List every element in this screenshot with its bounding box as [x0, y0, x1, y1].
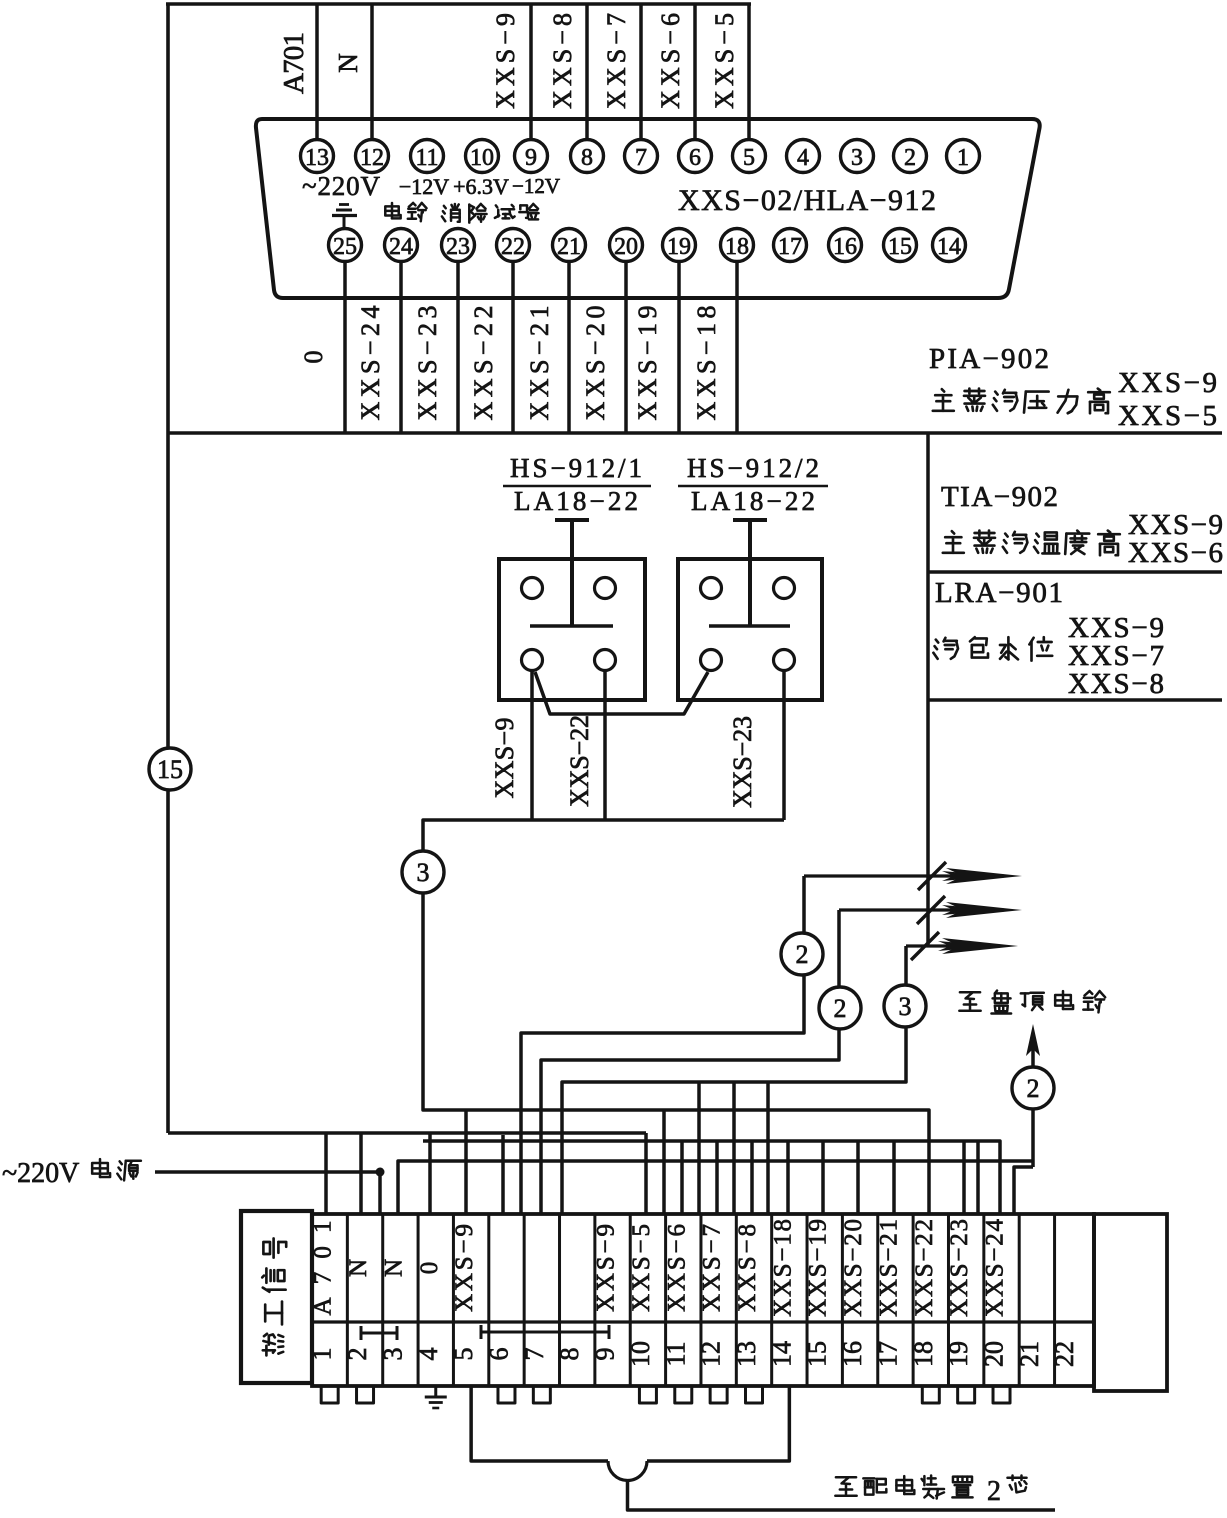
- svg-text:1: 1: [308, 1348, 337, 1361]
- wire N bus terminal 3 to bell cable: [398, 1161, 1033, 1214]
- svg-text:XXS−9: XXS−9: [593, 1224, 620, 1312]
- slash cable 3: [911, 932, 939, 960]
- slash cable 2: [917, 896, 945, 924]
- svg-text:2: 2: [1027, 1074, 1040, 1103]
- wire drop to terminal 11: [680, 1141, 684, 1214]
- wire XXS-6 to pin 6: [693, 4, 697, 140]
- svg-text:XXS−8: XXS−8: [1068, 668, 1164, 700]
- label drum water level: [933, 638, 958, 659]
- terminal 18 lug: [922, 1386, 939, 1403]
- svg-text:22: 22: [501, 234, 525, 260]
- svg-text:XXS−21: XXS−21: [875, 1219, 902, 1317]
- svg-text:15: 15: [888, 234, 912, 260]
- slash cable 1: [918, 862, 946, 890]
- svg-text:XXS−23: XXS−23: [946, 1219, 973, 1317]
- jumper terminals 5-9: [480, 1325, 483, 1339]
- terminal 11 lug: [675, 1386, 692, 1403]
- pin 6: [679, 140, 712, 173]
- wire from pin 18: [735, 262, 739, 433]
- svg-text:PIA−902: PIA−902: [929, 343, 1049, 375]
- wire drop to terminal 4: [428, 1133, 432, 1214]
- svg-text:XXS−20: XXS−20: [840, 1219, 867, 1317]
- wire drop to terminal 12: [715, 1141, 719, 1214]
- pin 13: [301, 140, 334, 173]
- switch HS-912/1 body: [499, 559, 645, 700]
- pin 19: [663, 229, 696, 262]
- svg-text:0: 0: [416, 1262, 443, 1275]
- wire gather line / annunciator table top: [168, 431, 1222, 435]
- svg-text:25: 25: [333, 234, 357, 260]
- svg-text:XXS−9: XXS−9: [451, 1224, 478, 1312]
- svg-text:N: N: [333, 53, 363, 73]
- wire drop to terminal 1: [324, 1133, 328, 1214]
- wire drop to terminal 14: [786, 1141, 790, 1214]
- svg-text:14: 14: [767, 1341, 796, 1367]
- pin 11: [411, 140, 444, 173]
- svg-text:6: 6: [689, 145, 701, 171]
- ground (pin 25): [339, 203, 349, 206]
- wire 220V source: [155, 1170, 380, 1174]
- wire table divider 2: [928, 570, 1222, 573]
- svg-text:18: 18: [725, 234, 749, 260]
- terminal strip header (thermal signals): [241, 1211, 312, 1383]
- wire XXS-23 from HS-912/2: [782, 671, 786, 820]
- wire table divider 3: [928, 698, 1222, 701]
- label main steam temperature high: [943, 531, 964, 553]
- svg-text:10: 10: [470, 145, 494, 171]
- switch HS-912/1 actuator: [555, 518, 589, 522]
- svg-text:3: 3: [417, 858, 430, 887]
- wire drop to terminal 13: [750, 1141, 754, 1214]
- terminal strip body: [312, 1214, 1094, 1386]
- wire drop to terminal 6: [501, 1135, 505, 1214]
- svg-text:7: 7: [520, 1348, 549, 1361]
- svg-text:20: 20: [980, 1341, 1009, 1367]
- svg-text:XXS−22: XXS−22: [911, 1219, 938, 1317]
- wire A701 to pin 13: [315, 4, 319, 140]
- svg-text:16: 16: [838, 1341, 867, 1367]
- terminal 1 lug: [321, 1386, 338, 1403]
- svg-text:XXS−18: XXS−18: [769, 1219, 796, 1317]
- svg-text:TIA−902: TIA−902: [941, 481, 1058, 513]
- wire switch cable bus: [423, 820, 784, 1108]
- pin 22: [497, 229, 530, 262]
- switch HS-912/2 contact top-right: [774, 578, 795, 599]
- svg-text:9: 9: [525, 145, 537, 171]
- svg-text:16: 16: [833, 234, 857, 260]
- pin 21: [553, 229, 586, 262]
- pin 12: [356, 140, 389, 173]
- svg-text:LRA−901: LRA−901: [935, 577, 1063, 609]
- wire from pin 21: [567, 262, 571, 433]
- pin 7: [625, 140, 658, 173]
- pin 23: [442, 229, 475, 262]
- svg-text:23: 23: [446, 234, 470, 260]
- wire from pin 20: [624, 262, 628, 433]
- svg-text:18: 18: [909, 1341, 938, 1367]
- svg-text:2: 2: [904, 145, 916, 171]
- pin 5: [733, 140, 766, 173]
- pin 4: [787, 140, 820, 173]
- pin 1: [947, 140, 980, 173]
- wire/arrow cable to TIA-902: [839, 908, 1004, 911]
- wire left cable bundle (15-core): [166, 4, 170, 1133]
- cable marker 2 (bell): [1012, 1067, 1054, 1109]
- svg-text:19: 19: [667, 234, 691, 260]
- svg-text:8: 8: [555, 1348, 584, 1361]
- wire from pin 25: [343, 262, 347, 433]
- switch HS-912/2 contact bottom-right: [774, 650, 795, 671]
- svg-text:−12V: −12V: [512, 174, 560, 198]
- switch HS-912/1 contact top-left: [522, 578, 543, 599]
- wire drop to terminal 16: [856, 1141, 860, 1214]
- switch HS-912/1 contact bottom-left: [522, 650, 543, 671]
- pin 17: [774, 229, 807, 262]
- svg-text:XXS−9: XXS−9: [1118, 367, 1217, 399]
- svg-text:13: 13: [732, 1341, 761, 1367]
- cable marker 3 (LRA): [884, 985, 926, 1027]
- svg-text:2: 2: [796, 940, 809, 969]
- wire from pin 24: [399, 262, 403, 433]
- wire drop to terminal 11 (cable): [662, 1110, 666, 1214]
- wire 15-core fan-out bus: [168, 1131, 646, 1135]
- pin 3: [841, 140, 874, 173]
- svg-text:4: 4: [797, 145, 809, 171]
- terminal 6 lug: [498, 1386, 515, 1403]
- cable marker 2 (PIA): [781, 933, 823, 975]
- svg-text:2: 2: [987, 1476, 1001, 1507]
- pin 25: [329, 229, 362, 262]
- svg-text:7: 7: [635, 145, 647, 171]
- switch HS-912/1 contact top-right: [595, 578, 616, 599]
- pin 15: [884, 229, 917, 262]
- svg-text:2: 2: [343, 1348, 372, 1361]
- wire fan-out comb: [423, 1141, 1000, 1214]
- svg-text:24: 24: [389, 234, 413, 260]
- svg-text:XXS−22: XXS−22: [565, 715, 594, 807]
- wire switch-cable bus to terminals: [423, 1108, 929, 1214]
- svg-text:XXS−7: XXS−7: [699, 1224, 726, 1312]
- terminal 20 lug: [993, 1386, 1010, 1403]
- wire top cable bundle: [166, 2, 751, 6]
- terminal 7 lug: [533, 1386, 550, 1403]
- svg-text:11: 11: [661, 1341, 690, 1366]
- terminal 10 lug: [639, 1386, 656, 1403]
- svg-text:XXS−5: XXS−5: [1118, 400, 1217, 432]
- wire drop to terminal 19: [962, 1141, 966, 1214]
- wire from pin 23: [456, 262, 460, 433]
- wire drop to terminal 2: [359, 1133, 363, 1214]
- svg-text:11: 11: [415, 145, 438, 171]
- wire drop to terminal 10: [644, 1133, 648, 1214]
- svg-text:+6.3V: +6.3V: [453, 174, 509, 199]
- label dianling (bell): [385, 203, 400, 218]
- switch HS-912/2 contact top-left: [701, 578, 722, 599]
- wire drop to terminal 5: [464, 1110, 468, 1214]
- pin 8: [571, 140, 604, 173]
- switch HS-912/2 body: [678, 559, 822, 700]
- svg-text:19: 19: [944, 1341, 973, 1367]
- svg-text:−12V: −12V: [399, 174, 449, 199]
- svg-text:3: 3: [851, 145, 863, 171]
- switch HS-912/1 contact bottom-right: [595, 650, 616, 671]
- pin 24: [385, 229, 418, 262]
- wire from pin 22: [511, 262, 515, 433]
- wire drop to terminal 19: [976, 1141, 980, 1214]
- svg-text:12: 12: [360, 145, 384, 171]
- svg-text:22: 22: [1050, 1341, 1079, 1367]
- label xiaochu (cancel): [442, 204, 460, 222]
- switch HS-912/2 actuator: [733, 518, 767, 522]
- svg-text:XXS−5: XXS−5: [628, 1224, 655, 1312]
- ground (terminal 4): [434, 1386, 437, 1397]
- wire drop to terminal 17: [892, 1141, 896, 1214]
- terminal 2 lug: [357, 1386, 374, 1403]
- svg-text:12: 12: [697, 1341, 726, 1367]
- svg-text:17: 17: [873, 1341, 902, 1367]
- svg-text:XXS−23: XXS−23: [728, 716, 757, 808]
- svg-text:~220V: ~220V: [2, 1158, 79, 1189]
- switch HS-912/2 contact bottom-left: [701, 650, 722, 671]
- pin 10: [466, 140, 499, 173]
- svg-text:5: 5: [743, 145, 755, 171]
- wire drop to terminal 13 (cable): [732, 1082, 736, 1214]
- pin 20: [610, 229, 643, 262]
- svg-text:0: 0: [299, 351, 328, 364]
- svg-text:14: 14: [937, 234, 961, 260]
- label to distribution device 2-core: [835, 1477, 856, 1495]
- wire to distribution device: [628, 1480, 1056, 1510]
- terminal 12 lug: [710, 1386, 727, 1403]
- svg-text:17: 17: [778, 234, 802, 260]
- wire/arrow cable to LRA-901: [906, 944, 1000, 947]
- svg-text:5: 5: [449, 1348, 478, 1361]
- svg-text:XXS−19: XXS−19: [805, 1219, 832, 1317]
- pin 16: [829, 229, 862, 262]
- svg-text:XXS−6: XXS−6: [663, 1224, 690, 1312]
- wire table left edge: [926, 433, 930, 946]
- wire XXS-9 from HS-912/1: [530, 671, 534, 820]
- svg-text:XXS−02/HLA−912: XXS−02/HLA−912: [678, 184, 936, 217]
- svg-text:20: 20: [614, 234, 638, 260]
- svg-text:XXS−9: XXS−9: [490, 718, 519, 799]
- svg-text:XXS−6: XXS−6: [1128, 537, 1223, 569]
- wire drop to terminal 15: [821, 1141, 825, 1214]
- wire XXS-8 to pin 8: [585, 4, 589, 140]
- svg-text:10: 10: [626, 1341, 655, 1367]
- svg-text:~220V: ~220V: [302, 171, 381, 201]
- terminal 19 lug: [958, 1386, 975, 1403]
- svg-text:9: 9: [591, 1348, 620, 1361]
- svg-text:A701: A701: [278, 32, 310, 94]
- pin 9: [515, 140, 548, 173]
- cable grommet (2-core): [608, 1461, 647, 1481]
- wire XXS-7 to pin 7: [639, 4, 643, 140]
- svg-text:21: 21: [1015, 1341, 1044, 1367]
- jumper terminals 2-3: [360, 1326, 363, 1340]
- svg-text:3: 3: [378, 1348, 407, 1361]
- pin 14: [933, 229, 966, 262]
- label to panel-top bell: [959, 992, 980, 1010]
- wire LRA cable stem: [562, 946, 906, 1214]
- pin 2: [894, 140, 927, 173]
- svg-text:4: 4: [414, 1348, 443, 1361]
- cable marker 15: [149, 748, 191, 790]
- wire drop to terminal 12 (cable): [697, 1082, 701, 1214]
- svg-text:13: 13: [305, 145, 329, 171]
- svg-text:2: 2: [834, 994, 847, 1023]
- wire from pin 19: [677, 262, 681, 433]
- svg-text:N: N: [380, 1259, 407, 1277]
- cable marker 2 (TIA): [819, 987, 861, 1029]
- svg-text:6: 6: [484, 1348, 513, 1361]
- connector XXS-02/HLA-912 outline: [256, 119, 1040, 298]
- wire drop to terminal 14 (cable): [766, 1082, 770, 1214]
- wire XXS-9 to pin 9: [529, 4, 533, 140]
- svg-text:XXS−24: XXS−24: [982, 1219, 1009, 1318]
- wire PIA cable stem: [521, 876, 804, 1214]
- wire XXS-5 to pin 5: [747, 4, 751, 140]
- wire TIA cable stem: [541, 910, 839, 1214]
- svg-text:8: 8: [581, 145, 593, 171]
- svg-text:1: 1: [957, 145, 969, 171]
- svg-text:15: 15: [803, 1341, 832, 1367]
- label shiyan (test): [495, 205, 515, 218]
- wire XXS-22 from HS-912/1: [603, 671, 607, 820]
- terminal 13 lug: [746, 1386, 763, 1403]
- cable marker 3 (switch cable): [402, 851, 444, 893]
- svg-text:XXS−8: XXS−8: [734, 1224, 761, 1312]
- pin 18: [721, 229, 754, 262]
- label main steam pressure high: [933, 389, 954, 411]
- svg-text:3: 3: [899, 992, 912, 1021]
- wire terminal 5 to terminal 14 (distribution cable): [471, 1386, 608, 1461]
- wire/arrow cable to PIA-902: [804, 874, 1004, 877]
- svg-text:15: 15: [157, 755, 183, 784]
- terminal strip right end box: [1094, 1214, 1167, 1391]
- wire N to pin 12: [370, 4, 374, 140]
- wire/arrow to panel-top bell: [1031, 1048, 1035, 1167]
- wire link HS-912/1 to HS-912/2: [535, 672, 708, 714]
- svg-text:21: 21: [557, 234, 581, 260]
- svg-text:N: N: [345, 1259, 372, 1277]
